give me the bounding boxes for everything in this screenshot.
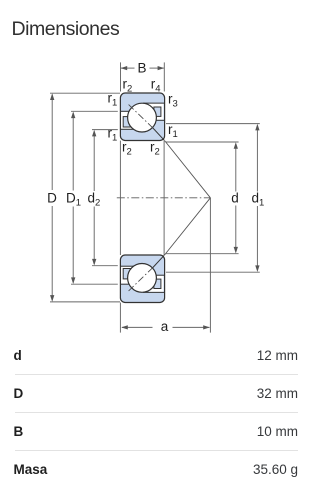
table row d (14, 337, 299, 375)
wire: centerline axis (117, 197, 211, 199)
dimension d1 line (256, 126, 258, 192)
ball (128, 103, 157, 132)
svg-text:r2: r2 (150, 139, 160, 157)
svg-text:D: D (47, 190, 57, 205)
wire: left bore vertical between halves (119, 141, 121, 255)
table row B (14, 413, 299, 451)
svg-text:r2: r2 (122, 139, 132, 157)
svg-text:d: d (231, 190, 239, 205)
wire: contact line upper (164, 140, 210, 197)
dimension d2 line (93, 132, 95, 192)
svg-text:d1: d1 (252, 190, 265, 208)
svg-text:r2: r2 (123, 77, 133, 95)
wire: contact line lower (164, 198, 210, 255)
wire: right side vertical between halves (163, 141, 165, 255)
svg-text:B: B (137, 61, 146, 76)
arrowheads a (121, 325, 128, 329)
arrowheads d (234, 142, 238, 149)
dimension a line (122, 326, 153, 328)
arrowheads d1 (255, 124, 259, 131)
svg-text:r3: r3 (168, 92, 178, 110)
arrowheads d2 (92, 130, 96, 137)
bearing lower half cross-section (mirror) (120, 255, 164, 303)
arrowheads B (121, 66, 128, 70)
wire: left extension down to a-line (119, 303, 121, 333)
wire: convergence vertical to a-line (209, 198, 211, 333)
table row Masa (14, 451, 299, 489)
table row D (14, 375, 299, 413)
svg-text:r4: r4 (151, 77, 161, 95)
dimension d line (235, 144, 237, 192)
svg-text:a: a (161, 319, 169, 334)
svg-text:d2: d2 (88, 190, 101, 208)
svg-text:r1: r1 (168, 122, 178, 140)
dimension B line (121, 67, 135, 69)
dimension B extension lines (120, 62, 122, 91)
svg-text:r1: r1 (108, 126, 118, 144)
dimension D line (51, 95, 53, 191)
svg-text:D1: D1 (66, 190, 81, 208)
dimension D1 line (72, 113, 74, 191)
arrowheads D1 (71, 112, 75, 119)
bearing upper half cross-section (120, 93, 164, 141)
arrowheads D (50, 93, 54, 100)
